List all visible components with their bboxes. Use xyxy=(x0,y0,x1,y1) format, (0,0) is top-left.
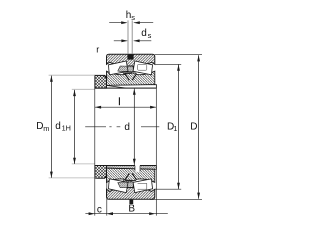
sleeve thin wedge under inner ring xyxy=(107,85,157,89)
svg-text:m: m xyxy=(43,124,49,133)
centreline xyxy=(85,126,159,128)
inner ring section xyxy=(107,71,155,85)
svg-text:s: s xyxy=(148,31,152,40)
svg-text:1: 1 xyxy=(173,124,177,133)
dimension n_s xyxy=(109,22,153,24)
svg-text:D: D xyxy=(190,122,197,133)
pin hole dark base xyxy=(127,54,133,59)
cage guide block bottom xyxy=(123,180,132,182)
svg-text:s: s xyxy=(131,13,135,22)
cage bar sectioned (left, hatched) xyxy=(118,66,133,72)
bore line xyxy=(95,87,156,89)
inner ring section bottom xyxy=(107,168,155,182)
right roller xyxy=(133,61,153,75)
thread notch bottom xyxy=(104,174,107,178)
svg-text:d: d xyxy=(124,122,130,133)
bore line bottom xyxy=(95,165,156,167)
svg-text:d: d xyxy=(55,121,61,132)
sleeve slot gap (bottom half only) xyxy=(135,165,140,172)
dimension d_s xyxy=(114,40,152,42)
extension line bearing left face (bottom) xyxy=(106,178,108,215)
dimension d1H xyxy=(72,89,95,164)
outer ring section bottom xyxy=(107,188,155,200)
thread notch xyxy=(104,76,107,80)
sleeve left end block (nut/washer) xyxy=(95,75,107,88)
cage pocket outline (right roller) xyxy=(138,64,147,70)
cage bar bottom xyxy=(118,182,133,188)
pin in outer ring (top) xyxy=(128,20,132,54)
svg-text:c: c xyxy=(97,205,102,216)
cage pocket outline bottom xyxy=(138,183,147,189)
extension line sleeve left face xyxy=(94,75,96,215)
outer ring section xyxy=(107,54,155,66)
svg-text:d: d xyxy=(141,28,147,39)
bearing half-section (top), mirrored below xyxy=(95,54,156,88)
inner ring centre rib edges xyxy=(125,74,136,80)
extension line sleeve right face xyxy=(155,84,157,215)
inner ring centre rib edges bottom xyxy=(125,173,136,179)
left roller bottom xyxy=(109,179,129,193)
dimension c and B xyxy=(85,213,167,215)
dimension D1 xyxy=(155,64,181,189)
dimension Dm xyxy=(49,75,97,178)
sleeve wedge bottom (hatched) xyxy=(107,166,157,170)
dimension d (vertical) xyxy=(133,89,135,165)
right roller bottom xyxy=(133,179,153,193)
cage guide block centre xyxy=(123,72,132,74)
svg-text:1H: 1H xyxy=(62,124,71,133)
dimension l xyxy=(95,106,156,108)
bottom pin stub xyxy=(129,200,133,204)
svg-text:B: B xyxy=(128,204,135,215)
left roller xyxy=(109,61,129,75)
svg-text:r: r xyxy=(96,45,99,55)
sleeve left end block bottom xyxy=(95,166,107,179)
dimension D xyxy=(150,54,202,199)
sleeve taper/slot edge xyxy=(107,86,126,89)
mirrored bottom half xyxy=(95,166,156,200)
